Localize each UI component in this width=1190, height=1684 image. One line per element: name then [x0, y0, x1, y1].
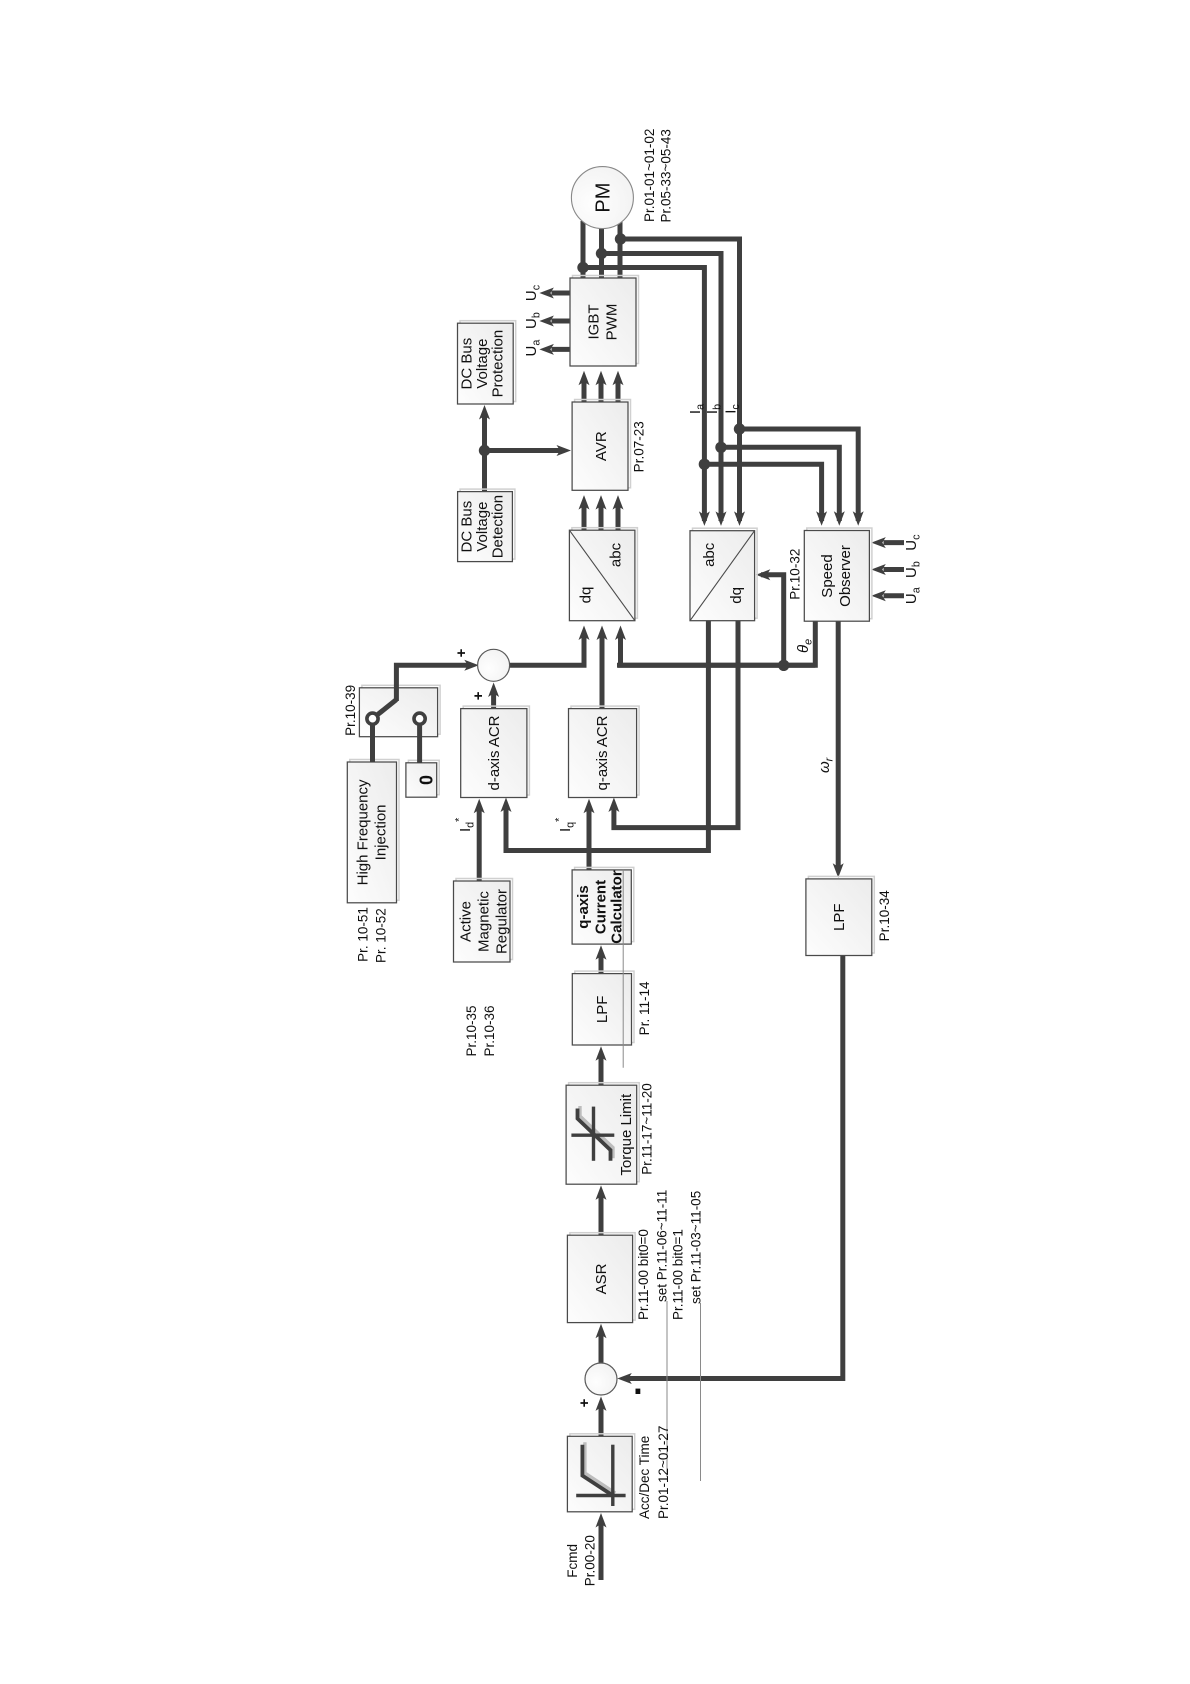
svg-text:LPF: LPF [594, 996, 611, 1024]
svg-text:set Pr.11-06~11-11: set Pr.11-06~11-11 [655, 1190, 670, 1302]
svg-text:Pr.01-12~01-27: Pr.01-12~01-27 [656, 1426, 671, 1519]
svg-text:abc: abc [608, 542, 625, 567]
svg-text:Pr.01-01~01-02: Pr.01-01~01-02 [642, 129, 657, 222]
svg-text:Pr. 10-52: Pr. 10-52 [374, 908, 389, 963]
svg-text:Speed: Speed [819, 554, 836, 597]
svg-text:Fcmd: Fcmd [565, 1544, 580, 1578]
svg-text:set Pr.11-03~11-05: set Pr.11-03~11-05 [689, 1191, 704, 1304]
svg-text:dq: dq [578, 587, 595, 604]
svg-text:Pr.07-23: Pr.07-23 [632, 421, 647, 472]
svg-text:AVR: AVR [593, 431, 610, 461]
svg-text:d-axis ACR: d-axis ACR [486, 715, 503, 790]
svg-text:Pr.11-00 bit0=0: Pr.11-00 bit0=0 [636, 1229, 651, 1320]
svg-text:Pr.11-00 bit0=1: Pr.11-00 bit0=1 [671, 1229, 686, 1320]
svg-text:q-axis ACR: q-axis ACR [594, 715, 611, 790]
svg-text:Regulator: Regulator [494, 889, 511, 954]
svg-text:Protection: Protection [490, 330, 507, 398]
svg-text:Pr.10-36: Pr.10-36 [482, 1005, 497, 1056]
svg-text:Current: Current [593, 880, 610, 934]
svg-text:Magnetic: Magnetic [476, 891, 493, 952]
svg-text:Observer: Observer [837, 545, 854, 607]
svg-text:LPF: LPF [831, 903, 848, 931]
svg-text:Calculator: Calculator [609, 870, 626, 944]
svg-text:DC Bus: DC Bus [459, 338, 476, 390]
svg-text:Pr. 11-14: Pr. 11-14 [637, 981, 652, 1035]
svg-text:dq: dq [728, 587, 745, 604]
svg-text:Pr.10-35: Pr.10-35 [464, 1005, 479, 1056]
svg-text:IGBT: IGBT [586, 304, 603, 339]
svg-text:Pr.10-34: Pr.10-34 [877, 890, 892, 942]
svg-text:Pr.05-33~05-43: Pr.05-33~05-43 [659, 129, 674, 222]
svg-text:0: 0 [417, 775, 437, 785]
svg-text:Voltage: Voltage [474, 339, 491, 389]
svg-text:Active: Active [458, 901, 475, 942]
svg-text:Torque Limit: Torque Limit [618, 1093, 635, 1176]
svg-text:PM: PM [593, 183, 615, 213]
svg-text:+: + [470, 691, 487, 700]
svg-text:Acc/Dec Time: Acc/Dec Time [637, 1436, 652, 1519]
svg-text:+: + [576, 1398, 593, 1407]
svg-text:Pr.10-32: Pr.10-32 [788, 549, 803, 600]
svg-text:Injection: Injection [373, 804, 390, 860]
svg-text:abc: abc [701, 542, 718, 567]
svg-text:Pr. 10-51: Pr. 10-51 [355, 907, 370, 962]
svg-text:High Frequency: High Frequency [355, 779, 372, 885]
svg-text:Detection: Detection [490, 495, 507, 558]
svg-text:ASR: ASR [593, 1263, 610, 1294]
svg-text:PWM: PWM [604, 304, 621, 341]
svg-text:Pr.00-20: Pr.00-20 [583, 1535, 598, 1586]
svg-text:+: + [453, 648, 470, 657]
svg-text:Pr.10-39: Pr.10-39 [343, 685, 358, 736]
svg-text:Voltage: Voltage [474, 502, 491, 552]
svg-text:DC Bus: DC Bus [459, 501, 476, 553]
svg-text:Pr.11-17~11-20: Pr.11-17~11-20 [640, 1083, 655, 1174]
svg-text:q-axis: q-axis [575, 885, 592, 928]
